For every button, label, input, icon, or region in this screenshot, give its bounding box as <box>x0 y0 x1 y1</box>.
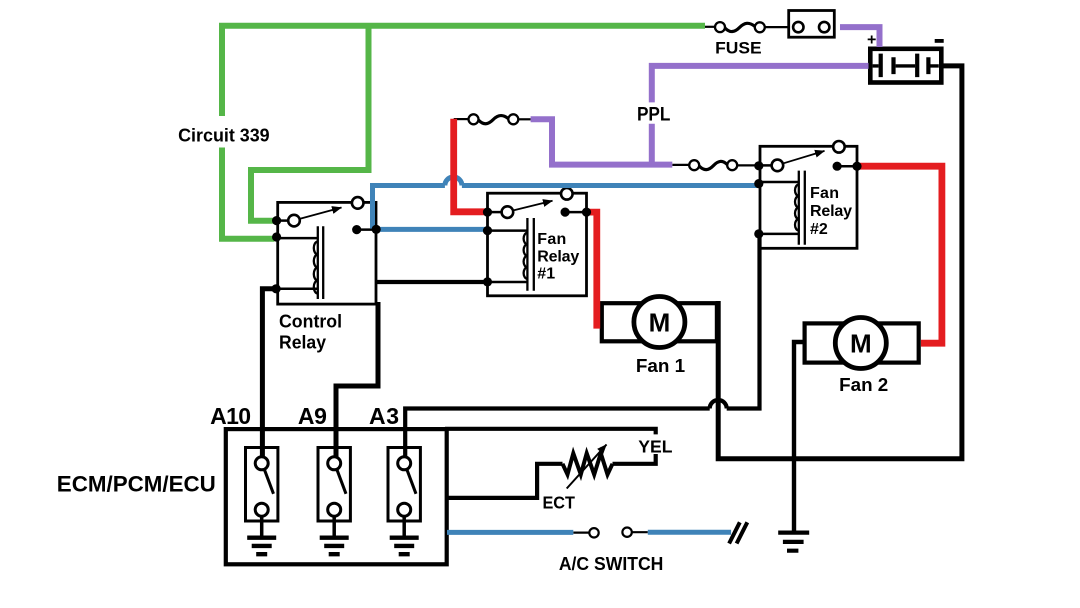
junction node: fused feed at Fan Relay #2 switch <box>754 161 763 170</box>
fusible link F2 (middle) <box>454 118 469 120</box>
svg-text:A10: A10 <box>210 403 251 429</box>
relay U1 Control Relay box <box>278 202 376 304</box>
svg-text:+: + <box>867 31 876 48</box>
switch lead Fan Relay #2 <box>761 164 772 167</box>
relay K1 Fan Relay #1 box <box>488 193 587 296</box>
battery - terminal label <box>935 39 944 43</box>
coil leads Fan Relay #1 <box>489 231 528 282</box>
svg-text:Relay: Relay <box>537 248 579 265</box>
svg-text:PPL: PPL <box>637 105 671 126</box>
coil of Fan Relay #2 <box>799 171 805 245</box>
wire Control Relay to A9 (black) <box>336 302 378 458</box>
junction node: blue at Fan Relay #2 coil + <box>754 179 763 188</box>
junction node: Fan Relay #1 coil - <box>483 277 492 286</box>
svg-text:#2: #2 <box>810 221 828 238</box>
junction node: Fan Relay #2 output stub right <box>852 162 861 171</box>
svg-text:Control: Control <box>279 312 342 332</box>
ground A9 <box>332 516 336 537</box>
junction node: green at Control Relay switch <box>272 216 281 225</box>
wire red: Fan Relay #1 to Fan 1 motor <box>587 212 597 329</box>
svg-text:Relay: Relay <box>810 203 852 220</box>
svg-text:Circuit 339: Circuit 339 <box>178 126 270 146</box>
motor M2 circle <box>835 318 886 369</box>
junction node: Control Relay output stub right <box>372 225 381 234</box>
coil leads Control Relay <box>279 238 318 289</box>
switch A9 box <box>318 448 350 522</box>
fusible link F3 (fan relay 2 input) <box>672 164 689 166</box>
wire Circuit 339 green: fuse to ECM feed <box>222 26 705 116</box>
junction node: Fan Relay #1 output stub right <box>582 208 591 217</box>
coil leads Fan Relay #2 <box>761 182 799 234</box>
svg-text:M: M <box>649 307 671 337</box>
output stub Fan Relay #1 <box>565 211 586 214</box>
output stub Fan Relay #2 <box>837 165 857 168</box>
resistor ECT thermistor zigzag <box>563 453 613 474</box>
wire battery negative to ground rail (black) <box>718 66 962 459</box>
svg-text:M: M <box>850 328 872 358</box>
svg-text:Relay: Relay <box>279 333 326 353</box>
switch arm arrow Fan Relay #1 <box>514 201 553 211</box>
svg-text:Fan: Fan <box>810 185 839 202</box>
coil of Fan Relay #1 <box>527 218 533 291</box>
switch A10 contacts <box>255 457 268 470</box>
svg-text:Fan 2: Fan 2 <box>839 375 888 395</box>
wire ECM top to YEL connector (black) <box>445 429 656 435</box>
output stub Control Relay <box>357 228 377 231</box>
wire blue: ECM to A/C switch <box>447 530 573 535</box>
wire hop over ground rail <box>710 400 727 409</box>
wire A3 to Fan Relay #2 coil (black, with hop) <box>405 232 759 458</box>
svg-text:A/C SWITCH: A/C SWITCH <box>559 553 664 574</box>
wire Control Relay to Fan Relay #1 coil return (black) <box>377 280 488 284</box>
ground A10 <box>260 516 264 537</box>
A/C switch wire-break slashes <box>729 522 747 543</box>
ECM/PCM/ECU box <box>226 429 447 564</box>
switch lead Fan Relay #1 <box>489 211 502 214</box>
svg-text:ECT: ECT <box>542 492 575 512</box>
switch A3 contacts <box>398 457 411 470</box>
wire purple: fuse holder to battery positive <box>840 27 880 47</box>
switch contacts Control Relay <box>288 215 300 227</box>
battery plates <box>881 54 918 78</box>
junction node: Fan Relay #1 output stub left <box>561 208 570 217</box>
motor M1 circle <box>634 297 685 348</box>
svg-text:Fan 1: Fan 1 <box>636 356 685 376</box>
junction node: Control Relay output stub left <box>352 225 361 234</box>
wire red: Fan Relay #2 to Fan 2 motor <box>857 166 942 343</box>
wire ECT resistor to YEL connector (black) <box>613 454 656 464</box>
wire red: fusible link to Fan Relay #1 <box>454 119 488 212</box>
ground (chassis, right) <box>778 533 809 551</box>
wire blue: Control Relay output to Fan Relay #2 coil (with hop over red) <box>373 186 759 229</box>
junction node: Control Relay coil - <box>272 284 281 293</box>
svg-text:Fan: Fan <box>537 231 566 248</box>
fusible link F1 (top) <box>705 26 715 28</box>
wire blue: to Fan Relay #1 coil <box>376 227 488 232</box>
A/C switch contacts <box>573 531 589 533</box>
junction node: red at Fan Relay #1 switch <box>483 208 492 217</box>
wire ECM to ECT resistor (black) <box>447 464 563 498</box>
svg-text:YEL: YEL <box>638 437 672 457</box>
battery BT1 box <box>870 49 941 83</box>
junction node: blue at Fan Relay #1 coil + <box>483 226 492 235</box>
switch A3 box <box>388 448 420 522</box>
svg-text:A3: A3 <box>369 403 399 429</box>
wire PPL purple: battery to fusible links <box>652 66 869 103</box>
svg-text:FUSE: FUSE <box>715 38 762 57</box>
motor M2 Fan 2 box <box>805 323 919 362</box>
wire blue: A/C switch to break <box>648 530 731 535</box>
svg-text:A9: A9 <box>298 403 327 429</box>
switch lead Control Relay <box>278 219 289 222</box>
fuse holder box <box>789 11 835 38</box>
wire Control Relay coil to A10 (black) <box>262 289 276 458</box>
svg-text:ECM/PCM/ECU: ECM/PCM/ECU <box>57 472 216 497</box>
ground A3 <box>402 516 406 537</box>
relay K2 Fan Relay #2 box <box>760 146 857 248</box>
switch contacts Fan Relay #2 <box>772 160 784 172</box>
wire hop blue over red <box>445 177 462 186</box>
coil of Control Relay <box>318 226 323 299</box>
switch A10 box <box>246 448 278 522</box>
motor M1 Fan 1 box <box>602 303 717 341</box>
switch A9 contacts <box>328 457 341 470</box>
junction node: Fan Relay #2 coil - <box>754 229 763 238</box>
resistor ECT arrow <box>567 445 607 489</box>
junction node: green at Control Relay coil + <box>272 232 281 241</box>
svg-text:#1: #1 <box>537 265 555 282</box>
switch contacts Fan Relay #1 <box>502 206 514 218</box>
switch arm arrow Fan Relay #2 <box>784 151 825 163</box>
wire Fan 2 to chassis ground (black) <box>794 342 803 532</box>
switch arm arrow Control Relay <box>301 208 342 219</box>
junction node: Fan Relay #2 output stub left <box>833 162 842 171</box>
